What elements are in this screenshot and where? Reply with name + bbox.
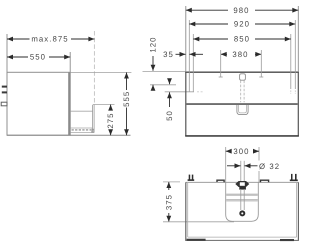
basin apron bottom reference line [165, 91, 194, 93]
extension line top (cabinet top to 555) [71, 71, 132, 73]
extension line basin bottom (275 top) [93, 103, 115, 105]
extension line 920 left [188, 20, 190, 92]
inner wall left [187, 183, 189, 237]
dimension 120 [149, 36, 158, 70]
extension line top left (375 top) [163, 181, 180, 183]
drain flange ring [239, 210, 245, 216]
dimension 555 [122, 73, 131, 136]
left mounting bracket (black clip) [188, 175, 195, 181]
drawer bottom rail lines [70, 127, 93, 129]
svg-text:980: 980 [233, 6, 249, 15]
extension line right of 550 [69, 52, 71, 72]
drain pipe vertical lines [240, 161, 242, 182]
dashed extension line front of basin [93, 31, 95, 104]
wall bracket tab upper [2, 86, 7, 88]
bottom edge dark segment right [280, 239, 294, 241]
basin top reference line (left light part) [143, 71, 187, 73]
wall box outline [1, 102, 7, 106]
drain cup outer [237, 105, 248, 115]
bottom view outer box [186, 181, 299, 183]
wall bracket tab lower [2, 91, 7, 93]
cabinet top reference line (front view left) [150, 84, 176, 86]
bottom view bottom edge [185, 239, 299, 241]
faucet dashed drop lines [240, 81, 242, 103]
svg-text:120: 120 [149, 36, 158, 52]
basin panel (double line) [92, 105, 94, 133]
dimension 380 [221, 50, 262, 59]
drawer gap dark band [186, 103, 297, 105]
drain cup inner [239, 105, 247, 113]
svg-text:Ø 32: Ø 32 [259, 162, 280, 171]
dimension 850 [193, 35, 290, 44]
right siphon bracket bar [261, 180, 269, 182]
extension line 850 right [290, 34, 292, 89]
svg-text:550: 550 [30, 53, 46, 62]
svg-text:300: 300 [233, 147, 249, 156]
dimension 275 [106, 105, 115, 136]
svg-text:50: 50 [165, 110, 174, 121]
extension line 920 right [294, 20, 296, 89]
extension line bottom (cabinet bottom) [7, 134, 131, 136]
svg-text:max.875: max.875 [31, 35, 68, 44]
faucet hole outline [240, 74, 246, 80]
slide end block [92, 129, 94, 132]
svg-text:380: 380 [232, 50, 248, 59]
svg-text:275: 275 [106, 112, 115, 128]
extension line 380 left with foot [220, 50, 222, 77]
extension line 980 left (up from box corner) [185, 6, 187, 72]
svg-text:555: 555 [122, 91, 131, 107]
front view outer box [185, 71, 299, 73]
drawer slide dashed line [72, 129, 92, 131]
dimension max.875 [7, 35, 94, 44]
cabinet body (side view) [7, 72, 70, 135]
dimension 920 [189, 20, 295, 29]
dimension 50 [165, 92, 174, 121]
trap plate lines [226, 193, 258, 195]
dimension 35 [163, 50, 203, 59]
inner wall right [296, 183, 298, 237]
dimension 50 upper arrow [169, 79, 171, 84]
svg-text:920: 920 [234, 20, 250, 29]
extension line left (wall side) [6, 34, 8, 72]
extension line 980 right (up from box corner) [297, 6, 299, 72]
drain pipe nut (hexagon) [235, 181, 249, 187]
bottom edge dark segment left [187, 239, 206, 241]
right mounting bracket (black clip) [290, 174, 298, 181]
dimension 980 [186, 6, 298, 15]
drain pipe body below seal [240, 189, 242, 210]
dimension 375 [164, 182, 173, 222]
dimension 300 (extension lines up from U edges) [225, 147, 227, 182]
drain pipe seal (black band) [239, 187, 246, 190]
extension line 850 left [192, 34, 194, 92]
drain flange hole [241, 212, 243, 214]
siphon cutout U shape [226, 183, 259, 222]
cabinet front edge thick bar [68, 73, 70, 136]
dimension diameter 32 [227, 162, 280, 171]
drawer slide rail line [70, 110, 92, 112]
dimension 550 [7, 53, 70, 62]
svg-text:35: 35 [163, 50, 174, 59]
extension line 380 right with foot [260, 50, 262, 77]
extension line bottom (siphon cutout bottom) [163, 221, 234, 223]
left siphon bracket bar [217, 180, 224, 182]
120 bottom arrow [152, 85, 154, 91]
inner wall bottom [188, 236, 297, 238]
svg-text:375: 375 [164, 194, 173, 210]
svg-text:850: 850 [234, 35, 250, 44]
